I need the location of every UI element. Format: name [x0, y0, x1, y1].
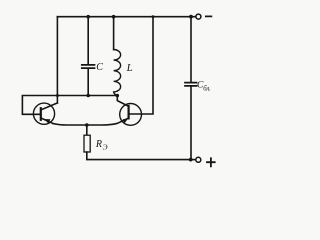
- wire to plus terminal: [191, 159, 196, 161]
- wire emitter rail (Q1 emitter to Q2 emitter): [53, 118, 129, 125]
- transistor Q1 emitter with arrow: [41, 118, 53, 123]
- transistor Q1 circle: [33, 103, 54, 124]
- wire to minus terminal: [191, 16, 196, 18]
- wire inductor L top lead: [113, 17, 115, 50]
- svg-text:L: L: [126, 62, 133, 74]
- node crossing blob collector/base line: [56, 94, 59, 97]
- wire capacitor C top lead: [87, 17, 89, 64]
- node dot bottom rail right: [189, 158, 193, 162]
- node dot L bottom / Q2 collector junction: [116, 94, 120, 98]
- wire right vertical rail: [190, 17, 192, 82]
- node dot C bottom on base line: [86, 94, 90, 98]
- capacitor C plates: [82, 65, 95, 68]
- transistor Q2 circle: [120, 104, 142, 126]
- transistor Q1 base bar: [40, 108, 42, 120]
- transistor Q2 base bar: [128, 106, 130, 118]
- resistor R3 bottom lead: [87, 152, 191, 160]
- resistor R3 top lead: [86, 125, 88, 135]
- minus sign: [206, 15, 212, 17]
- svg-text:.: .: [209, 86, 211, 93]
- wire left vertical (Q1 collector to rail): [56, 17, 58, 103]
- resistor R3 body: [84, 135, 90, 152]
- wire Q2 collector lead: [117, 96, 128, 107]
- node dot C top: [86, 15, 90, 19]
- capacitor Cbl plates: [185, 83, 197, 86]
- inductor L coil: [114, 49, 121, 95]
- terminal minus circle: [196, 14, 201, 19]
- plus sign: [207, 158, 215, 166]
- svg-text:C: C: [96, 62, 103, 73]
- node dot Q2 base at rail: [152, 15, 155, 18]
- node dot rail right end: [189, 15, 193, 19]
- svg-text:R: R: [95, 139, 102, 150]
- svg-text:Э: Э: [103, 142, 108, 151]
- wire Cbl bottom lead: [190, 87, 192, 160]
- terminal plus circle: [196, 157, 201, 162]
- wire base line (tank bottom to Q1 base loop): [22, 96, 117, 115]
- wire capacitor C bottom lead: [87, 69, 89, 96]
- wire top rail: [57, 16, 191, 18]
- node dot emitter junction: [85, 123, 89, 127]
- transistor Q2 emitter arrowhead: [123, 119, 128, 124]
- wire Q2 base lead to rail: [129, 17, 153, 114]
- transistor Q1 emitter arrowhead: [44, 119, 50, 124]
- node dot L top: [112, 15, 116, 19]
- transistor Q1 collector inside: [41, 103, 57, 110]
